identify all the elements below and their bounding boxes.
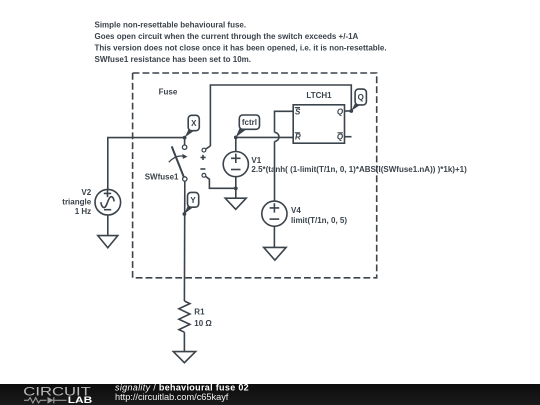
svg-text:limit(T/1n, 0, 5): limit(T/1n, 0, 5) (291, 216, 347, 225)
svg-text:Goes open circuit when the cur: Goes open circuit when the current throu… (95, 32, 359, 41)
node X flag (185, 115, 200, 137)
svg-text:fctrl: fctrl (242, 118, 257, 127)
wire latch S input down to V4 with hop over R wire (275, 111, 294, 132)
svg-text:Q: Q (337, 132, 344, 141)
wire R1 bottom (183, 332, 185, 351)
svg-text:SWfuse1: SWfuse1 (145, 172, 179, 181)
ground (V1) (225, 198, 246, 209)
svg-text:Q: Q (337, 107, 344, 116)
svg-text:V4: V4 (291, 206, 301, 215)
ground (V2) (98, 236, 118, 248)
svg-text:V2: V2 (81, 188, 91, 197)
svg-text:X: X (191, 119, 197, 128)
svg-text:10 Ω: 10 Ω (194, 319, 212, 328)
voltage source V2 (95, 189, 121, 215)
voltage source V4 (262, 201, 287, 247)
svg-text:Simple non-resettable behaviou: Simple non-resettable behavioural fuse. (95, 20, 247, 29)
label R1 10ohm (194, 308, 212, 328)
label V4 limit (291, 206, 347, 225)
wire X junction to switch top (184, 138, 186, 145)
node Y flag (184, 192, 198, 213)
svg-text:http://circuitlab.com/c65kayf: http://circuitlab.com/c65kayf (115, 392, 229, 402)
node Q flag (351, 89, 366, 111)
svg-text:SWfuse1 resistance has been se: SWfuse1 resistance has been set to 10m. (95, 55, 252, 64)
svg-text:V1: V1 (251, 156, 261, 165)
svg-text:Y: Y (190, 196, 196, 205)
wire fctrl junction to latch R input (236, 136, 293, 138)
label V1 and formula (251, 156, 467, 174)
resistor R1 (179, 301, 190, 332)
switch SWfuse1 (169, 145, 188, 181)
svg-text:Q: Q (358, 93, 364, 102)
wire V2 bottom (107, 215, 109, 236)
svg-text:R: R (295, 132, 301, 141)
latch LTCH1 (293, 105, 351, 143)
logo resistor-diode glyph (24, 397, 67, 404)
ground (R1) (173, 352, 195, 363)
svg-text:LTCH1: LTCH1 (306, 91, 332, 100)
svg-text:R1: R1 (194, 308, 205, 317)
svg-text:2.5*(tanh( (1-limit(T/1n, 0, 1: 2.5*(tanh( (1-limit(T/1n, 0, 1)*ABS(I(SW… (251, 165, 467, 174)
svg-text:S: S (295, 107, 301, 116)
junction fctrl/V1+ (234, 136, 238, 140)
svg-text:signality / behavioural fuse 0: signality / behavioural fuse 02 (115, 384, 249, 392)
junction node Y (183, 212, 187, 216)
junction below V1 (234, 187, 238, 191)
junction node Q (349, 109, 353, 113)
node fctrl flag (236, 115, 260, 137)
fuse enclosure dashed box (133, 73, 377, 278)
ground (V4) (264, 247, 286, 260)
svg-text:Fuse: Fuse (159, 87, 178, 96)
wire V2 top to node X (108, 138, 185, 190)
svg-text:LAB: LAB (68, 395, 93, 405)
behavioural source V1 with control terminals (200, 137, 248, 198)
junction node X (183, 136, 187, 140)
svg-text:1 Hz: 1 Hz (75, 207, 91, 216)
wire switch bottom to node Y and down to R1 (183, 181, 185, 301)
footer bar (0, 384, 540, 405)
svg-text:triangle: triangle (62, 198, 91, 207)
wire top loop: vertical at x=210 and horizontal y=85 to Q corner (210, 85, 351, 146)
svg-text:This version does not close on: This version does not close once it has … (95, 44, 387, 53)
annotation note (description text) (95, 20, 387, 64)
wire bend into + control terminal (206, 146, 211, 149)
label V2 triangle 1 Hz (62, 188, 91, 216)
